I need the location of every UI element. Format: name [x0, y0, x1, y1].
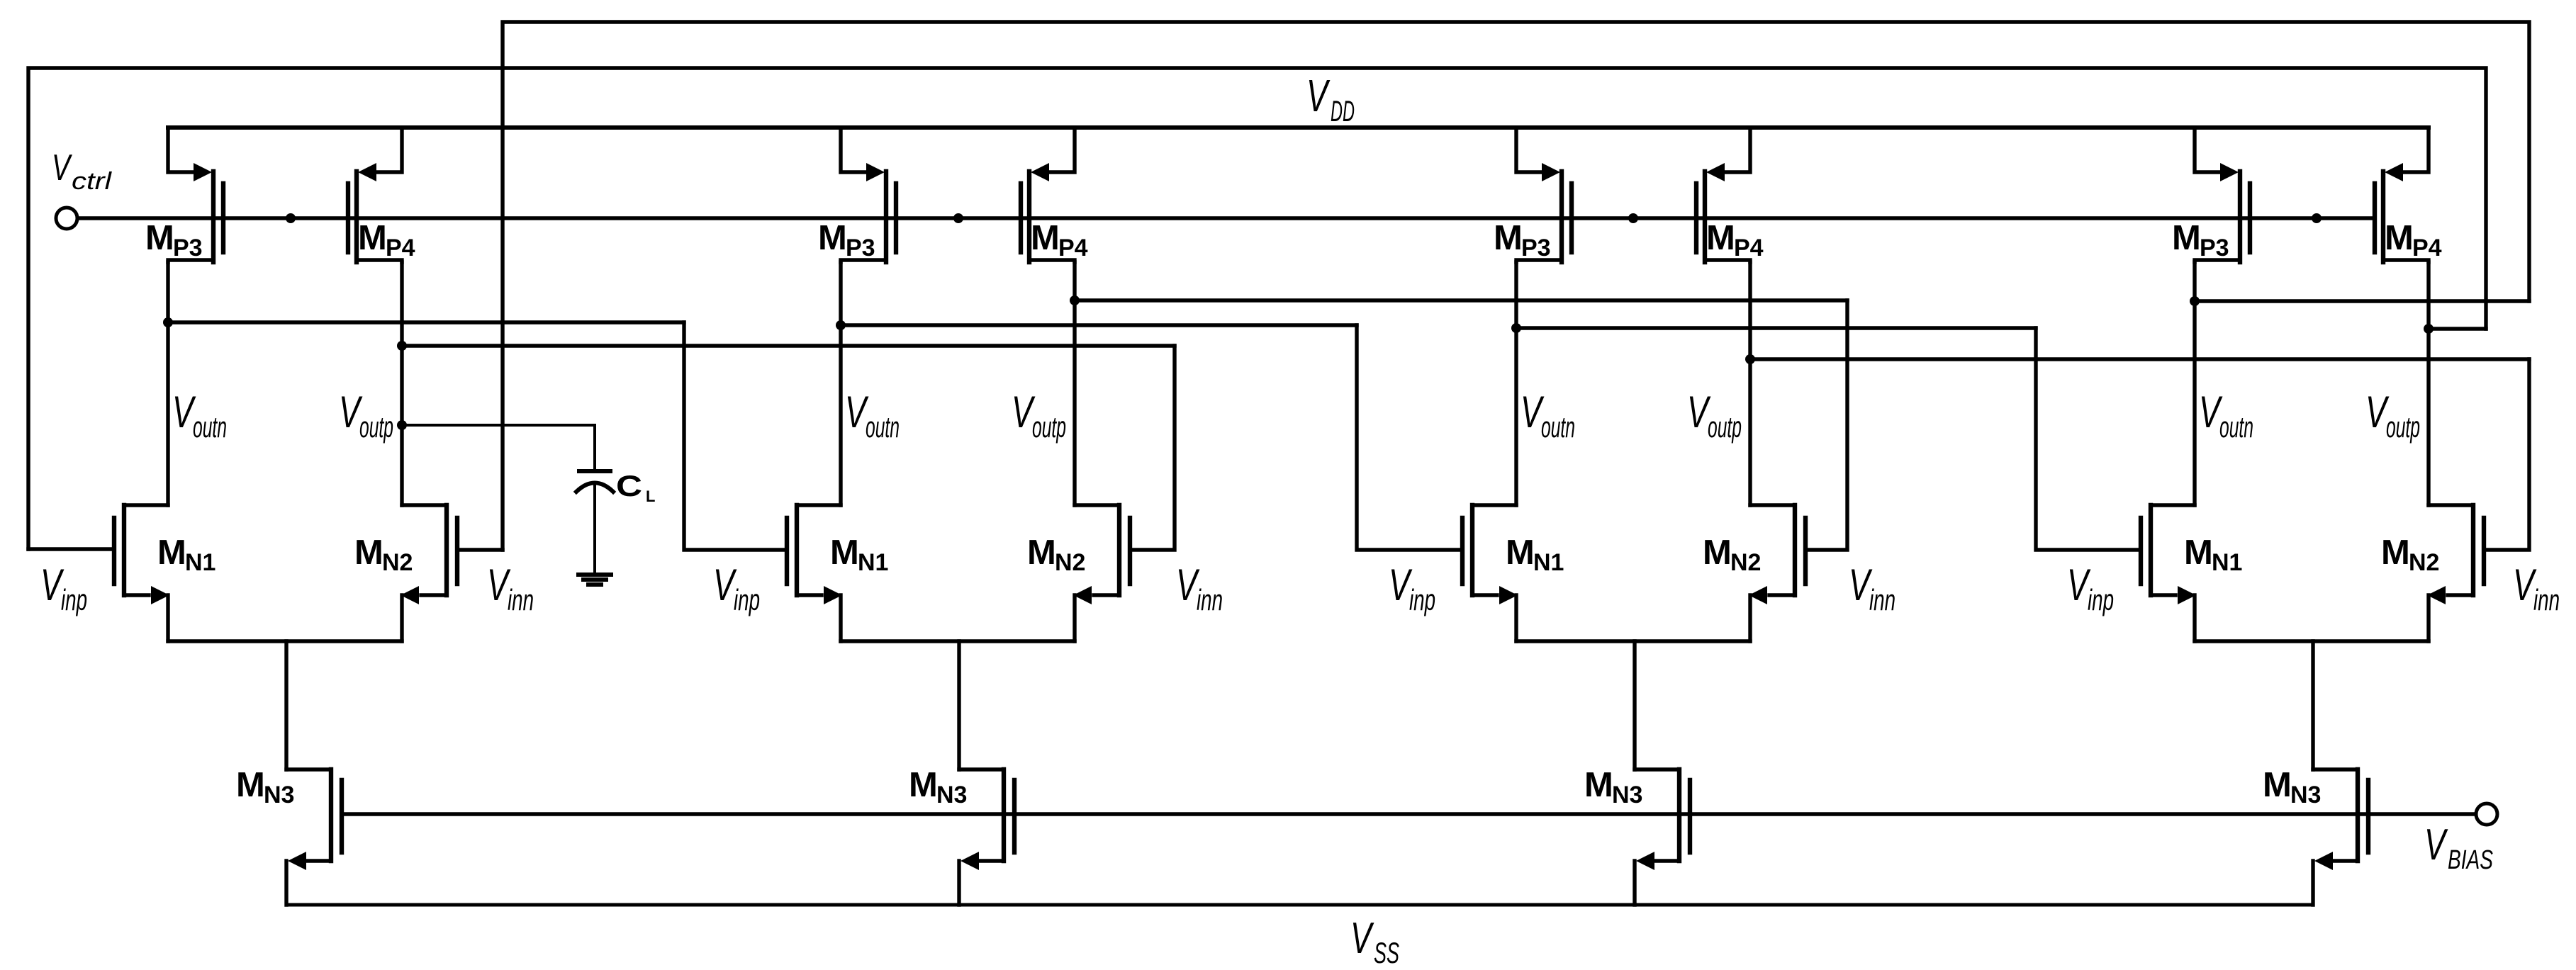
node Voutn (stage 3): [1511, 323, 1521, 333]
transistor MN3 (stage 4): [2313, 769, 2368, 905]
transistor MN1 (stage 2): [787, 505, 842, 641]
svg-text:V: V: [1306, 70, 1331, 121]
svg-text:M: M: [1027, 534, 1056, 572]
transistor MP4 (stage 4): [2375, 128, 2429, 262]
svg-text:DD: DD: [1331, 94, 1355, 128]
terminal VBIAS: [2476, 803, 2497, 825]
svg-text:outn: outn: [2219, 410, 2253, 444]
wire Voutp drain (stage 3): [1748, 262, 1752, 505]
svg-text:M: M: [354, 534, 383, 572]
wire Voutn stage4 to feedback riser: [2195, 299, 2529, 303]
wire Vinp gate (stage 4): [2036, 328, 2141, 550]
node Voutp (stage 1): [397, 341, 407, 351]
transistor MN2 (stage 2): [1073, 505, 1130, 641]
svg-text:P3: P3: [2200, 235, 2229, 261]
terminal Vctrl: [56, 208, 77, 229]
svg-text:inn: inn: [508, 583, 534, 616]
svg-text:P3: P3: [846, 235, 875, 261]
svg-text:inn: inn: [1197, 583, 1223, 616]
svg-text:outn: outn: [193, 410, 227, 444]
wire feedback Voutp stage4 to stage1 Vinp (left border): [28, 68, 2486, 549]
svg-text:outp: outp: [2386, 410, 2420, 444]
node Vctrl junction (stage 3): [1628, 213, 1638, 223]
wire feedback Voutn stage4 to stage1 Vinn (top): [503, 22, 2529, 550]
wire source bus (stage 4): [2195, 639, 2429, 643]
svg-text:M: M: [2263, 766, 2292, 804]
transistor MN3 (stage 3): [1635, 769, 1690, 905]
wire Voutn drain (stage 1): [166, 262, 169, 505]
svg-text:SS: SS: [1374, 936, 1399, 969]
wire tail (stage 2): [957, 641, 961, 769]
svg-text:P4: P4: [386, 235, 415, 261]
transistor MP3 (stage 2): [841, 128, 896, 262]
transistor MP4 (stage 2): [1021, 128, 1075, 262]
svg-text:N1: N1: [858, 549, 888, 576]
wire tail (stage 3): [1633, 641, 1636, 769]
transistor MN1 (stage 1): [114, 505, 169, 641]
svg-text:M: M: [358, 219, 387, 257]
wire Voutn drain (stage 4): [2193, 262, 2196, 505]
svg-text:BIAS: BIAS: [2448, 845, 2493, 875]
transistor MN2 (stage 1): [401, 505, 457, 641]
transistor MN1 (stage 3): [1462, 505, 1518, 641]
ground: [578, 575, 611, 585]
svg-text:outn: outn: [866, 410, 900, 444]
wire Voutn drain (stage 2): [839, 262, 842, 505]
svg-text:inp: inp: [734, 583, 760, 616]
svg-text:outp: outp: [1708, 410, 1742, 444]
node Voutn (stage 2): [836, 320, 846, 330]
svg-text:M: M: [830, 534, 859, 572]
node Voutn (stage 4): [2190, 296, 2200, 306]
svg-text:M: M: [1494, 219, 1523, 257]
wire Vinn gate (stage 4): [2484, 359, 2529, 550]
transistor MN3 (stage 1): [286, 769, 342, 905]
wire capacitor tap: [402, 425, 595, 469]
svg-text:M: M: [818, 219, 847, 257]
wire Vinp gate (stage 1): [28, 547, 114, 551]
node Voutp (stage 3): [1745, 354, 1755, 364]
transistor MP3 (stage 3): [1516, 128, 1572, 262]
wire Voutp to next stage (stage 3): [1750, 357, 2529, 361]
svg-text:M: M: [909, 766, 938, 804]
node Voutp (stage 2): [1070, 295, 1080, 305]
wire Voutp drain (stage 1): [400, 262, 403, 505]
wire Voutn drain (stage 3): [1514, 262, 1518, 505]
svg-text:M: M: [2172, 219, 2201, 257]
wire Vinn gate (stage 1): [457, 548, 503, 551]
svg-text:N1: N1: [185, 549, 215, 576]
svg-text:ctrl: ctrl: [72, 168, 113, 195]
VSS rail: [286, 903, 2313, 907]
wire VBIAS gate line: [342, 812, 2475, 816]
wire source bus (stage 3): [1516, 639, 1750, 643]
svg-text:M: M: [2381, 534, 2410, 572]
wire Voutp to next stage (stage 2): [1075, 298, 1847, 302]
transistor MP3 (stage 1): [168, 128, 223, 262]
svg-text:inp: inp: [1409, 583, 1435, 616]
transistor MP4 (stage 3): [1696, 128, 1750, 262]
svg-text:M: M: [236, 766, 265, 804]
svg-text:N3: N3: [2290, 782, 2321, 808]
svg-text:P4: P4: [1058, 235, 1088, 261]
svg-text:inn: inn: [2533, 583, 2560, 616]
wire Vctrl gate line: [79, 216, 2375, 220]
svg-text:M: M: [1506, 534, 1535, 572]
svg-text:inp: inp: [61, 583, 87, 616]
svg-text:P3: P3: [1521, 235, 1551, 261]
svg-text:outn: outn: [1541, 410, 1575, 444]
svg-text:M: M: [1703, 534, 1732, 572]
svg-text:V: V: [1350, 914, 1374, 963]
svg-text:inp: inp: [2088, 583, 2114, 616]
svg-text:M: M: [2385, 219, 2414, 257]
node Vctrl junction (stage 4): [2312, 213, 2322, 223]
svg-text:V: V: [52, 147, 72, 188]
svg-text:outp: outp: [1032, 410, 1066, 444]
wire tail (stage 4): [2311, 641, 2314, 769]
svg-text:N2: N2: [382, 549, 413, 576]
transistor MP3 (stage 4): [2195, 128, 2250, 262]
node Vctrl junction (stage 1): [286, 213, 296, 223]
wire source bus (stage 2): [841, 639, 1075, 643]
svg-text:M: M: [2184, 534, 2213, 572]
transistor MN3 (stage 2): [959, 769, 1014, 905]
svg-text:M: M: [1031, 219, 1060, 257]
wire tail (stage 1): [284, 641, 288, 769]
wire Voutn to next stage (stage 3): [1516, 326, 2036, 329]
wire Vinn gate (stage 3): [1805, 300, 1847, 550]
capacitor CL: [576, 471, 613, 573]
svg-text:M: M: [145, 219, 174, 257]
wire Voutn to next stage (stage 2): [841, 323, 1357, 327]
svg-text:M: M: [157, 534, 186, 572]
svg-text:N3: N3: [264, 782, 294, 808]
wire Vinp gate (stage 2): [684, 322, 787, 550]
VDD rail: [168, 125, 2429, 130]
svg-text:V: V: [2424, 820, 2448, 869]
svg-text:P3: P3: [173, 235, 203, 261]
svg-text:L: L: [646, 487, 655, 505]
wire Vinp gate (stage 3): [1357, 325, 1462, 550]
svg-text:inn: inn: [1869, 583, 1895, 616]
svg-text:C: C: [616, 469, 642, 502]
svg-text:P4: P4: [2412, 235, 2442, 261]
svg-text:N1: N1: [2212, 549, 2242, 576]
wire Voutn to next stage (stage 1): [168, 320, 684, 324]
node Voutp capacitor tap (stage 1): [397, 420, 407, 430]
svg-text:N3: N3: [936, 782, 967, 808]
transistor MP4 (stage 1): [348, 128, 402, 262]
transistor MN1 (stage 4): [2141, 505, 2196, 641]
svg-text:N3: N3: [1612, 782, 1642, 808]
node Voutp (stage 4): [2424, 324, 2434, 334]
wire Vinn gate (stage 2): [1130, 346, 1175, 550]
wire Voutp to next stage (stage 1): [402, 344, 1175, 347]
node Voutn (stage 1): [163, 317, 173, 327]
svg-text:P4: P4: [1734, 235, 1764, 261]
wire source bus (stage 1): [168, 639, 402, 643]
wire Voutp stage4 to feedback riser: [2429, 327, 2486, 330]
wire Voutp drain (stage 4): [2426, 262, 2430, 505]
node Vctrl junction (stage 2): [953, 213, 963, 223]
transistor MN2 (stage 3): [1749, 505, 1805, 641]
svg-text:N2: N2: [2409, 549, 2439, 576]
wire Voutp drain (stage 2): [1073, 262, 1076, 505]
svg-text:M: M: [1706, 219, 1735, 257]
transistor MN2 (stage 4): [2427, 505, 2484, 641]
svg-text:outp: outp: [359, 410, 393, 444]
svg-text:N2: N2: [1055, 549, 1085, 576]
svg-text:N2: N2: [1730, 549, 1761, 576]
svg-text:M: M: [1584, 766, 1613, 804]
svg-text:N1: N1: [1533, 549, 1564, 576]
